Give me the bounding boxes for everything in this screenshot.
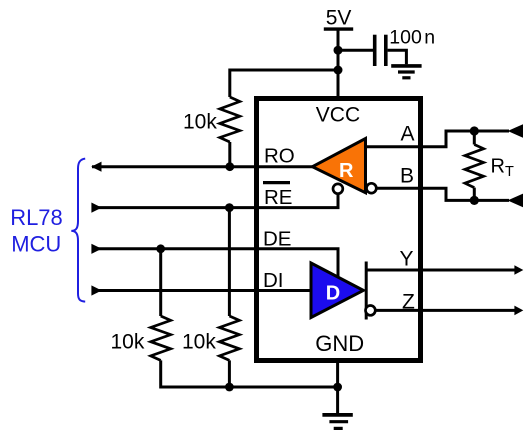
node junction RO/10k — [225, 162, 234, 171]
arrow Y (points right) — [514, 265, 523, 275]
svg-text:n: n — [424, 26, 435, 48]
bubble receiver inverting input (B) — [367, 183, 377, 193]
node junction 5V/10k pullup — [334, 66, 343, 75]
svg-text:Z: Z — [402, 291, 415, 314]
brace grouping MCU signals — [71, 159, 85, 302]
node junction 5V/capacitor — [334, 46, 343, 55]
svg-text:10k: 10k — [183, 110, 217, 133]
arrow RE (points right into device) — [91, 203, 101, 213]
node junction R3/ground bus — [225, 383, 234, 392]
svg-text:5V: 5V — [326, 7, 352, 30]
svg-text:RL78: RL78 — [10, 205, 63, 230]
svg-text:D: D — [326, 283, 340, 305]
wire 10k pulldown from DE line — [159, 249, 162, 316]
arrow Z (points right) — [514, 306, 523, 316]
wire to capacitor C1 — [338, 49, 373, 52]
svg-text:A: A — [401, 123, 415, 146]
wire Z line — [375, 309, 515, 312]
node junction RE/10k pulldown — [225, 203, 234, 212]
svg-text:B: B — [400, 165, 414, 188]
wire DI line — [92, 289, 312, 292]
wire RO line — [92, 165, 313, 168]
node junction DE/10k pulldown — [156, 244, 165, 253]
bubble driver inverting output (Z) — [366, 306, 376, 316]
ground (bottom) — [322, 415, 352, 429]
wire GND pin to ground — [336, 358, 339, 413]
resistor R1 10k (pull-up on RO) — [220, 97, 240, 142]
wire bottom ground bus — [161, 360, 338, 387]
wire RT top lead — [473, 131, 476, 145]
wire RT bottom lead — [473, 188, 476, 201]
resistor RT termination — [465, 145, 484, 188]
arrow A bus (points left) — [508, 124, 523, 138]
wire 5V vertical to VCC pin — [337, 29, 340, 101]
resistor R2 10k (pull-down on DE) zigzag — [151, 316, 171, 360]
ground (top, at capacitor) — [391, 66, 421, 78]
resistor R3 10k (pull-down on RE) zigzag — [219, 316, 239, 360]
svg-text:10k: 10k — [182, 330, 216, 353]
wire RE line — [92, 194, 338, 208]
wire 10k bottom lead to RO line — [228, 142, 231, 167]
svg-text:RO: RO — [264, 144, 295, 167]
wire A line from receiver — [366, 131, 510, 147]
svg-text:DE: DE — [263, 227, 291, 250]
wire 10k pullup top lead to 5V rail — [230, 70, 338, 97]
capacitor C1 100n plate left — [373, 35, 377, 66]
svg-text:MCU: MCU — [11, 232, 61, 257]
op-amp style receiver buffer R (orange triangle) — [312, 139, 365, 193]
wire B line from receiver bubble — [376, 188, 509, 200]
arrow B bus (points left) — [508, 194, 523, 208]
arrow DE (points right into device) — [91, 244, 101, 254]
wire capacitor to ground — [388, 50, 407, 64]
node junction ground bus/GND — [333, 383, 342, 392]
svg-text:GND: GND — [315, 331, 364, 356]
svg-text:VCC: VCC — [316, 104, 360, 127]
driver buffer D (blue triangle) — [311, 263, 363, 318]
capacitor C1 100n plate right — [384, 35, 388, 66]
svg-text:R: R — [339, 160, 354, 182]
svg-text:10k: 10k — [111, 330, 145, 353]
svg-text:100: 100 — [389, 26, 422, 48]
arrow DI (points right into device) — [91, 285, 101, 295]
wire R3 bottom lead — [228, 360, 231, 387]
arrow RO (points left to MCU) — [91, 162, 101, 172]
node junction B/RT — [470, 196, 479, 205]
svg-text:DI: DI — [263, 269, 284, 292]
wire Y line — [366, 269, 515, 272]
driver output bar — [365, 262, 368, 320]
wire 10k pulldown from RE line — [228, 208, 231, 316]
svg-text:RE: RE — [264, 186, 292, 209]
node junction A/RT — [470, 126, 479, 135]
IC box U1 transceiver outline — [257, 99, 421, 361]
5V supply bar — [324, 27, 353, 30]
wire DE line — [92, 249, 338, 278]
bubble receiver enable (RE) — [333, 184, 343, 194]
svg-text:Y: Y — [400, 248, 414, 271]
